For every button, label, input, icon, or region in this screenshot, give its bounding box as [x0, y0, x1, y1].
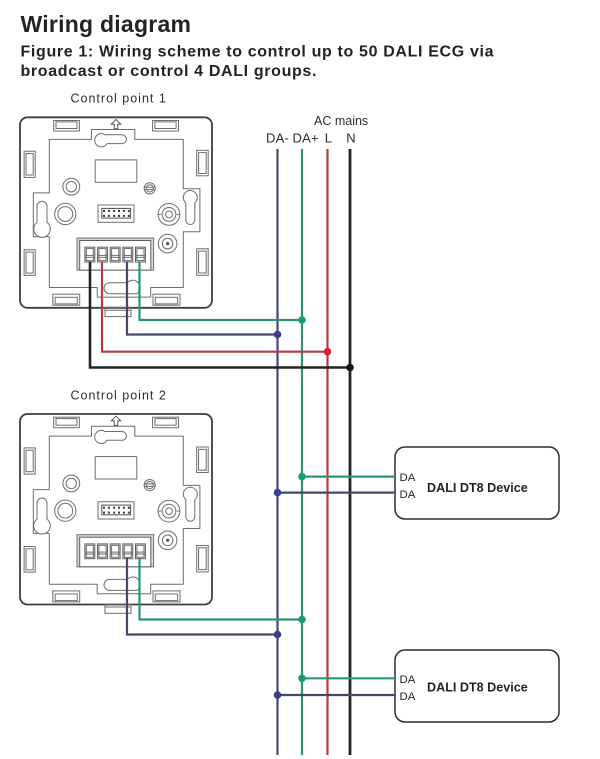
- wire dali2 DA+ green: [302, 677, 395, 679]
- svg-text:Wiring diagram: Wiring diagram: [21, 11, 192, 37]
- svg-text:DALI DT8 Device: DALI DT8 Device: [427, 481, 528, 495]
- wire cp1 DA+ green: [140, 262, 303, 321]
- wire DA+ bus: [301, 149, 303, 755]
- wire L bus: [326, 149, 328, 755]
- svg-text:Control point 1: Control point 1: [71, 92, 167, 106]
- wire dali2 DA- blue: [278, 694, 396, 696]
- svg-text:DA-: DA-: [266, 131, 289, 146]
- control point 1 panel: [20, 117, 212, 316]
- svg-text:L: L: [325, 131, 332, 146]
- junction dali1 blue: [274, 489, 282, 497]
- junction dali2 blue: [274, 691, 282, 699]
- wire cp1 N black: [90, 262, 350, 368]
- control point 2 panel: [20, 414, 212, 613]
- junction cp1 blue: [274, 331, 282, 339]
- wire dali1 DA- blue: [278, 492, 396, 494]
- wire cp1 DA- blue: [127, 262, 278, 335]
- svg-text:DA: DA: [400, 691, 416, 703]
- junction dali1 green: [298, 473, 306, 481]
- wire cp1 L red: [102, 262, 328, 352]
- svg-text:DA+: DA+: [293, 131, 319, 146]
- wire dali1 DA+ green: [302, 476, 395, 478]
- junction cp1 red: [324, 348, 332, 356]
- DALI DT8 device box 2: [395, 650, 559, 722]
- wire cp2 DA+ green: [140, 558, 303, 620]
- svg-text:DALI DT8 Device: DALI DT8 Device: [427, 681, 528, 695]
- DALI DT8 device box 1: [395, 447, 559, 519]
- junction cp2 blue: [274, 631, 282, 639]
- junction cp2 green: [298, 616, 306, 624]
- svg-text:Control point 2: Control point 2: [71, 389, 167, 403]
- junction dali2 green: [298, 675, 306, 683]
- svg-text:DA: DA: [400, 674, 416, 686]
- svg-text:DA: DA: [400, 489, 416, 501]
- junction cp1 black: [346, 364, 354, 372]
- svg-text:broadcast or control 4 DALI gr: broadcast or control 4 DALI groups.: [21, 63, 318, 80]
- wire cp2 DA- blue: [127, 558, 278, 635]
- svg-text:AC mains: AC mains: [314, 114, 368, 128]
- svg-text:DA: DA: [400, 472, 416, 484]
- junction cp1 green: [298, 316, 306, 324]
- svg-text:N: N: [346, 131, 355, 146]
- wire N bus: [349, 149, 352, 755]
- wire DA- bus: [276, 149, 278, 755]
- svg-text:Figure 1: Wiring scheme to con: Figure 1: Wiring scheme to control up to…: [21, 44, 495, 61]
